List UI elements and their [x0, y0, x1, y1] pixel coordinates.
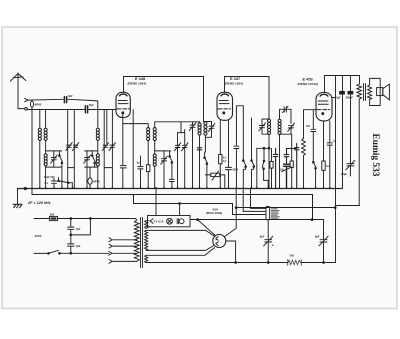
switch S10 mains	[48, 250, 60, 254]
wire lower input	[27, 109, 84, 111]
variable capacitor VC8	[259, 119, 269, 134]
wire cluster1 bottom rail	[46, 166, 62, 168]
svg-text:E 448: E 448	[135, 76, 146, 81]
wire rectifier anode up	[225, 188, 237, 237]
svg-text:8µF: 8µF	[260, 235, 265, 239]
variable capacitor VC2	[73, 143, 79, 151]
trimmer CT3	[189, 122, 196, 188]
variable capacitor VC6	[174, 143, 180, 188]
svg-text:(RENS 1264): (RENS 1264)	[225, 81, 243, 85]
switch S8	[262, 147, 268, 188]
capacitor C22	[295, 144, 299, 189]
capacitor C23	[197, 148, 202, 150]
scale lamp DL2	[177, 219, 184, 224]
resistor R7 zigzag	[288, 260, 301, 266]
switch S1	[59, 151, 63, 188]
dial lamp DL1	[167, 218, 173, 224]
svg-text:E 447: E 447	[230, 76, 240, 81]
resistor R6	[322, 161, 325, 188]
switch S4	[169, 151, 173, 180]
bus chassis line	[18, 188, 342, 190]
transformer T1 secondary W1	[145, 221, 149, 229]
dial lamp box	[148, 216, 191, 227]
wire detector rail	[155, 150, 171, 152]
svg-text:5µF: 5µF	[76, 244, 81, 248]
tap arrow A2	[109, 244, 137, 248]
capacitor C17 8uF	[264, 236, 273, 262]
wire L6 bottom	[204, 136, 206, 153]
wire V2 cathode resistor column	[219, 120, 221, 154]
svg-text:0,1: 0,1	[45, 182, 49, 185]
wire block to C17	[267, 220, 269, 240]
wire L3 top already, coil L3	[96, 128, 99, 140]
switch S2	[91, 151, 95, 167]
switch S7	[251, 118, 255, 188]
wire L2 to L2b	[45, 141, 47, 154]
wire B+ to output transformer	[334, 206, 359, 209]
wire switch to transformer	[59, 252, 108, 254]
wire block pin2	[243, 188, 266, 211]
wire bus to ground	[17, 189, 19, 205]
wire R1 to bus	[147, 172, 149, 188]
svg-text:ZF = 128 kHz: ZF = 128 kHz	[27, 201, 51, 205]
wire IFT1b bottom to L4	[154, 141, 156, 154]
variable capacitor VC1	[66, 143, 72, 151]
trimmer CT1	[51, 151, 58, 167]
junction dots on bus	[39, 187, 331, 195]
wire osc pad column	[178, 122, 185, 146]
wire IFT1b secondary top	[155, 122, 200, 128]
capacitor C3	[52, 178, 57, 188]
wire V2 anode	[225, 77, 270, 120]
capacitor C12 2uF	[340, 91, 345, 188]
dial lamp arrow	[150, 219, 153, 224]
fuse F2	[50, 216, 58, 220]
wire detector rail 2	[257, 147, 270, 188]
coil L4	[153, 154, 156, 166]
node terminal circle	[24, 187, 26, 189]
wire L2b to bus	[45, 166, 47, 188]
bottom supply bus	[146, 262, 336, 264]
rectifier tube V4	[213, 235, 226, 248]
capacitor C18 8uF	[319, 220, 328, 263]
coil IFT1b	[153, 128, 156, 141]
capacitor C16	[68, 229, 74, 253]
wire W2 tap lower	[146, 246, 214, 251]
svg-text:8µF: 8µF	[315, 235, 320, 239]
capacitor C9	[282, 164, 292, 188]
wire detector rail 3	[287, 134, 297, 148]
capacitor C10	[311, 110, 316, 162]
jack J2 arrow	[25, 98, 28, 101]
capacitor C15	[68, 219, 74, 230]
trimmer CT2	[84, 151, 91, 188]
variable capacitor VC3	[102, 143, 108, 151]
transformer T1 core	[141, 218, 143, 268]
speaker frame loop	[370, 78, 381, 105]
svg-text:5pF: 5pF	[68, 94, 73, 98]
component F1 oval	[30, 100, 33, 195]
wire V3 grid	[304, 110, 317, 139]
svg-text:E 453: E 453	[303, 77, 314, 82]
potentiometer P2	[205, 171, 224, 188]
wire lamp feed 2	[179, 203, 181, 216]
transformer T1 secondary W2	[145, 230, 148, 250]
svg-text:0,4: 0,4	[326, 165, 330, 168]
wire top caps	[343, 76, 351, 92]
wire L1 top	[39, 109, 41, 128]
svg-text:+: +	[272, 243, 274, 247]
capacitor C7 series	[234, 106, 243, 188]
svg-text:500: 500	[290, 253, 295, 257]
wire heater to rectifier	[198, 220, 215, 236]
resistor R4	[290, 149, 293, 189]
wire block pin1	[251, 188, 267, 208]
transformer T1 secondary W3	[145, 255, 148, 262]
jack J1 (circle)	[25, 108, 28, 111]
coil L6	[204, 122, 207, 136]
heater supply line	[190, 219, 324, 221]
capacitor C14 30uF electrolytic	[346, 160, 355, 176]
capacitor CD1	[283, 106, 288, 112]
svg-text:(RENS 1264): (RENS 1264)	[128, 81, 146, 85]
wire V1 cathode capacitor column	[120, 124, 126, 188]
capacitor C11	[327, 121, 332, 188]
antenna	[10, 73, 25, 108]
output transformer T2 secondary	[368, 85, 372, 99]
coil L2	[44, 128, 47, 140]
tap arrow A4	[109, 260, 137, 264]
speaker cone	[377, 84, 390, 100]
trimmer CT4	[203, 122, 215, 138]
wire C1 to oscillator coil	[68, 99, 98, 128]
wire V3 cathode column	[323, 121, 325, 161]
bus AVC line	[134, 195, 267, 215]
svg-text:(RENS 1374d): (RENS 1374d)	[298, 82, 318, 86]
wire lamp feed	[155, 188, 157, 216]
switch S6	[243, 106, 247, 188]
switch S5	[204, 152, 208, 188]
svg-text:500pF: 500pF	[346, 96, 354, 100]
svg-text:Eumig 533: Eumig 533	[370, 134, 380, 177]
wire cluster2 rails	[85, 151, 98, 167]
svg-text:70pF 500: 70pF 500	[44, 176, 55, 179]
switch S3	[58, 178, 73, 189]
wire L3 to L3b	[97, 141, 99, 154]
coil IFT2a	[268, 119, 271, 134]
coil IFT2b	[278, 119, 281, 134]
coil L5	[198, 122, 201, 188]
capacitor C2	[85, 106, 87, 113]
tap arrow A1	[109, 238, 137, 242]
terminal block TB1	[266, 206, 280, 219]
wire C2 to V1 grid	[89, 109, 116, 111]
svg-text:5µF: 5µF	[76, 227, 81, 231]
output transformer T2 primary	[357, 84, 362, 205]
lamp oval P1	[88, 167, 92, 188]
variable capacitor VC4	[109, 143, 115, 151]
svg-text:220V: 220V	[34, 234, 43, 238]
svg-text:6/P05: 6/P05	[93, 180, 100, 183]
capacitor C6	[226, 120, 232, 188]
wire V3 screen drop	[332, 76, 336, 263]
wire rectifier output	[226, 241, 236, 263]
svg-text:(RGN 1064): (RGN 1064)	[206, 211, 222, 215]
wire cluster1 top rail	[46, 150, 62, 152]
capacitor C20	[273, 148, 278, 188]
trimmer CT5	[280, 123, 295, 188]
tube V2 E447	[217, 92, 233, 120]
capacitor C4	[138, 156, 143, 188]
wire W3 tap upper	[146, 248, 214, 256]
switch S9	[313, 161, 317, 188]
variable capacitor VC5	[161, 151, 168, 188]
svg-text:30µF: 30µF	[341, 172, 347, 176]
coil IFT1a	[147, 128, 150, 141]
mains wire top	[34, 218, 136, 220]
wire IFT1a to resistor R1	[147, 141, 149, 165]
oscillator gang frame	[104, 109, 112, 188]
resistor R3	[270, 148, 273, 188]
wire upper input	[28, 98, 63, 101]
capacitor C5	[169, 179, 174, 188]
wire W2 tap upper	[146, 230, 215, 236]
capacitor C21	[284, 149, 289, 165]
wire grid return	[132, 110, 134, 188]
wire L2 top	[45, 109, 47, 128]
capacitor C1	[64, 97, 66, 103]
resistor R1	[147, 165, 150, 172]
wire L4 to bus	[154, 166, 156, 188]
resistor R2	[219, 155, 222, 189]
transformer T1 primary	[134, 219, 139, 262]
tube V3 E453	[316, 93, 332, 121]
bus heater line	[32, 195, 313, 220]
tuning gang frame	[68, 109, 75, 188]
wire V1 cathode	[123, 114, 148, 128]
wire V1 anode	[124, 77, 204, 122]
mains wire bottom	[34, 252, 48, 254]
output transformer T2 core	[364, 84, 366, 101]
tap arrow A3	[109, 251, 137, 255]
wire IFT2a to bus	[268, 135, 270, 188]
wire IFT2b top to diode cap	[280, 109, 292, 123]
svg-text:6/P05: 6/P05	[35, 103, 42, 106]
B+ line	[235, 207, 335, 209]
wire gang mid	[106, 109, 108, 143]
wire V3 anode	[325, 76, 360, 93]
ground	[13, 204, 22, 207]
tube V1 E448	[116, 92, 130, 117]
svg-text:5000: 5000	[233, 169, 239, 172]
variable capacitor VC7	[182, 143, 188, 188]
coil L1	[38, 128, 41, 140]
wire cap midpoint loop	[70, 218, 91, 236]
wire L1 to bus	[39, 141, 41, 188]
svg-text:4 V 0,1A: 4 V 0,1A	[154, 220, 164, 224]
wire antenna to jack	[18, 108, 25, 109]
capacitor C13 500pF	[348, 91, 353, 163]
wire L3b to bus	[97, 166, 99, 188]
resistor R5 zigzag	[302, 139, 306, 189]
coil L3b	[96, 154, 99, 166]
svg-text:500: 500	[50, 212, 55, 216]
svg-text:2µF: 2µF	[336, 96, 341, 100]
svg-text:5pF: 5pF	[89, 103, 94, 107]
coil L2b	[44, 154, 47, 166]
